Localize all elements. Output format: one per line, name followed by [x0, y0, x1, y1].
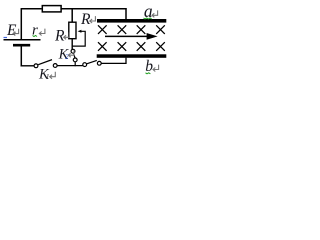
wire bottom middle horizontal [57, 65, 83, 67]
blue squiggle under E [4, 37, 8, 39]
switch K2 top terminal [71, 49, 75, 53]
return mark after b [153, 65, 159, 72]
return mark after a [152, 10, 158, 17]
svg-text:a: a [144, 1, 153, 21]
green squiggle under a [144, 18, 152, 19]
return mark after K2 [68, 50, 74, 57]
wire top horizontal right segment [62, 8, 127, 10]
resistor R (top horizontal box) [42, 6, 61, 12]
connector terminal left of rail [83, 63, 87, 67]
rheostat R box [69, 22, 76, 39]
wire right vertical drop to top rail [125, 8, 127, 20]
switch K1 right terminal [53, 64, 57, 68]
wire K2 tick to bottom wire [74, 62, 76, 66]
svg-text:1: 1 [46, 72, 50, 81]
switch K1 lever [38, 60, 52, 65]
svg-text:E: E [6, 22, 17, 39]
wire branch vertical to rheostat [71, 9, 73, 23]
wire below rheostat [71, 39, 73, 50]
rheostat wiper arrowhead [78, 30, 82, 33]
return mark after R [64, 32, 70, 39]
return mark after r [39, 29, 45, 36]
switch K1 left terminal [34, 64, 38, 68]
svg-text:R: R [54, 28, 65, 45]
return mark after K1 [50, 72, 56, 79]
field x row1 [98, 25, 165, 34]
wire bottom left horizontal [21, 65, 34, 67]
return mark after R top [90, 16, 96, 23]
switch K2 bottom terminal [73, 58, 77, 62]
connector terminal under rail [97, 61, 101, 65]
battery E long plate [4, 39, 41, 41]
svg-text:2: 2 [65, 52, 69, 61]
wire top horizontal left segment [21, 8, 42, 10]
green squiggle under r [33, 36, 38, 37]
wire from terminal to bottom rail at x126 [101, 58, 126, 64]
battery E short thick plate [13, 44, 30, 47]
rheostat wiper arm hook [72, 31, 85, 46]
connector lever to rail [87, 60, 97, 63]
return mark after E [13, 29, 19, 36]
rail top (thick) [97, 19, 166, 23]
svg-text:R: R [80, 11, 91, 28]
wire top-left vertical from battery to top rail wire [20, 9, 22, 40]
rail bottom (thick) [97, 54, 167, 58]
green squiggle under b [146, 73, 151, 74]
wire battery negative down [20, 46, 22, 66]
field x row2 [98, 42, 165, 51]
switch K2 lever [74, 53, 76, 58]
velocity arrow [105, 35, 148, 37]
